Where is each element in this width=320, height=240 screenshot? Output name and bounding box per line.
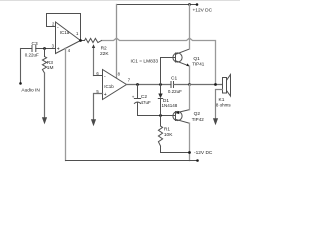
svg-text:C1: C1 xyxy=(171,75,177,81)
svg-text:IC1a: IC1a xyxy=(60,30,70,35)
svg-text:-12V DC: -12V DC xyxy=(194,150,213,156)
wire C2 bottom to Q2 base line xyxy=(138,115,176,117)
wire Q1 base riser xyxy=(161,58,176,85)
svg-text:+: + xyxy=(57,47,60,53)
pot wiper arrow of R2 xyxy=(93,47,95,75)
node -12V terminal dot xyxy=(196,159,199,162)
ground of pin5 xyxy=(91,119,96,126)
node +12V terminal dot xyxy=(196,3,199,6)
ground of speaker xyxy=(213,118,218,125)
wire audio input drop xyxy=(20,49,22,83)
wire Q1 collector to +12V xyxy=(189,5,191,50)
wire output node to speaker xyxy=(190,84,223,86)
svg-text:0.22uF: 0.22uF xyxy=(168,89,182,94)
wire audio input to pin 3 xyxy=(21,48,33,50)
transistor Q2 TIP42 xyxy=(173,111,182,120)
wire IC1b output node xyxy=(127,84,172,86)
resistor R1 xyxy=(160,116,162,127)
svg-text:R2: R2 xyxy=(101,45,107,51)
node R1/Q2 collector junction xyxy=(188,151,191,154)
svg-text:Audio IN: Audio IN xyxy=(21,88,40,94)
node audio input terminal xyxy=(19,82,22,85)
svg-text:4: 4 xyxy=(68,48,71,53)
svg-text:3: 3 xyxy=(52,43,55,48)
diode D1 xyxy=(160,85,162,94)
wire IC1a feedback loop pin1 to pin2 xyxy=(47,14,81,41)
transistor Q1 TIP41 xyxy=(173,53,182,62)
svg-text:+: + xyxy=(104,92,107,98)
wire -12V bottom rail xyxy=(66,160,198,162)
svg-text:IC1b: IC1b xyxy=(104,84,114,89)
node C3/R3 junction xyxy=(43,47,46,50)
svg-text:1M: 1M xyxy=(47,65,54,71)
resistor R2 (22K pot) xyxy=(85,38,102,42)
svg-text:0.22uF: 0.22uF xyxy=(25,53,39,58)
speaker K1 xyxy=(223,78,227,94)
capacitor C3 xyxy=(31,46,33,52)
op-amp IC1a xyxy=(56,22,81,54)
op-amp IC1b xyxy=(103,70,127,100)
svg-text:8: 8 xyxy=(118,72,121,77)
wire Q2 emitter to output node xyxy=(189,85,191,110)
wire R2 wiper to IC1b pin 6 xyxy=(94,75,103,77)
svg-text:TIP41: TIP41 xyxy=(192,62,205,67)
node +12V junction xyxy=(188,3,191,6)
wire C1 to output node xyxy=(174,84,190,86)
svg-text:IC1 = LM833: IC1 = LM833 xyxy=(131,59,159,65)
wire speaker bottom terminal to ground xyxy=(216,90,223,119)
node amplifier output junction xyxy=(188,83,191,86)
node D1/R1 junction xyxy=(159,114,162,117)
node D1/Q1-base junction xyxy=(159,83,162,86)
svg-text:8 ohms: 8 ohms xyxy=(216,103,232,108)
svg-text:7: 7 xyxy=(128,77,131,82)
wire IC1a pin4 to -12V rail xyxy=(65,48,67,161)
wire Q2 collector to -12V xyxy=(189,123,191,160)
wire pin8 riser from +12V rail down to IC1b xyxy=(116,5,118,79)
wire R2 to speaker node with crossover hops xyxy=(102,38,216,84)
wire IC1b pin5 to ground xyxy=(94,94,103,120)
wire +12V top rail xyxy=(117,4,198,6)
svg-text:1: 1 xyxy=(76,31,79,36)
svg-text:+: + xyxy=(132,94,135,99)
node pin7/C2 junction xyxy=(136,83,139,86)
capacitor C2 xyxy=(137,85,139,99)
svg-text:R1: R1 xyxy=(164,127,170,133)
node IC1a output junction xyxy=(79,39,82,42)
svg-text:TIP42: TIP42 xyxy=(192,117,205,122)
node speaker/feedback junction xyxy=(214,83,217,86)
svg-text:22K: 22K xyxy=(100,51,109,57)
svg-text:10K: 10K xyxy=(164,132,173,138)
svg-text:47uF: 47uF xyxy=(141,100,152,105)
faint top edge line xyxy=(0,0,240,2)
wire IC1a output to R2 xyxy=(81,40,85,42)
svg-text:+12V DC: +12V DC xyxy=(193,8,213,14)
svg-text:1N4148: 1N4148 xyxy=(162,103,178,108)
wire Q1 emitter to output node xyxy=(189,66,191,84)
resistor R3 xyxy=(44,49,46,57)
ground of R3 xyxy=(44,73,46,118)
capacitor C1 xyxy=(170,82,172,88)
svg-text:2: 2 xyxy=(52,21,55,26)
svg-text:C3: C3 xyxy=(32,41,38,47)
